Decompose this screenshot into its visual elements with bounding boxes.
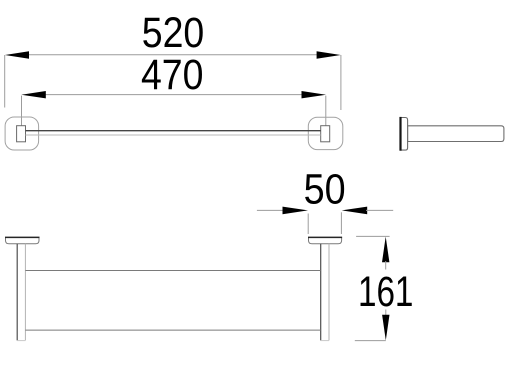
dimension 520 extension line left [4,55,6,108]
front view: bar bottom edge [26,134,321,136]
top view: right flange wall edge (dark) [308,236,342,238]
front view: left bracket post cross-section [17,126,26,142]
top view: front rail line [25,329,320,331]
dimension 161 extension line top [356,235,390,237]
side view: flange wall edge (thick) [399,117,401,151]
svg-text:520: 520 [142,9,205,57]
dimension 161 extension line bottom [355,340,386,342]
dimension 470 extension line right [325,96,327,126]
top view: right arm outer edge [320,244,322,341]
dimension text 161 [358,268,414,316]
dimension text 520 [142,9,205,57]
dimension text 470 [141,51,204,99]
dimension 470 arrowhead right [302,91,327,98]
top view: left flange wall edge (dark) [5,236,40,238]
top view: left arm outer edge [16,244,18,341]
dimension text 50 [304,165,346,213]
dimension 161 arrowhead down [382,310,389,341]
dimension 50 leader line right [366,209,393,211]
top view: right arm inner edge [328,244,330,341]
dimension 470 arrowhead left [21,91,46,98]
top view: left arm inner edge [24,244,26,341]
side view: wall flange plate [401,118,408,151]
top view: right arm bottom end cap [321,340,329,342]
dimension 161 arrowhead up [382,237,389,270]
svg-text:50: 50 [304,165,346,213]
dimension 520 arrowhead right [317,51,341,58]
front view: right bracket post cross-section [321,126,330,142]
svg-text:470: 470 [141,51,204,99]
dimension 520 line [26,54,318,56]
side view: bar body [408,126,504,142]
dimension 50 extension line left [307,214,309,235]
front view: left mounting bracket plate [5,117,39,150]
top view: left wall flange [6,237,40,243]
dimension 50 arrowhead right (pointing left) [342,207,368,215]
dimension 470 extension line left [21,96,23,126]
dimension 470 line [44,94,303,96]
dimension 520 extension line right [340,55,342,110]
dimension 50 leader line left [257,209,284,211]
dimension 50 arrowhead left (pointing right) [283,207,309,215]
top view: right wall flange [309,237,342,243]
top view: rear rail line [25,270,320,272]
dimension 520 arrowhead left [5,51,29,58]
svg-text:161: 161 [358,268,414,316]
dimension 50 extension line right [340,212,342,234]
front view: bar top edge [26,130,321,132]
top view: left arm bottom end cap [17,340,25,342]
front view: right mounting bracket plate [308,117,343,149]
